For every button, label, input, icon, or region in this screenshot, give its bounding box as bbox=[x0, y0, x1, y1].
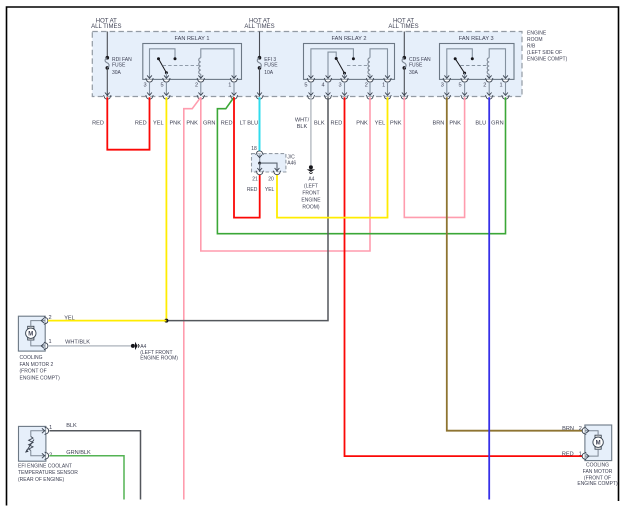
actuator dashed link bbox=[163, 64, 199, 66]
svg-text:BLK: BLK bbox=[297, 124, 308, 130]
motor M symbol bbox=[28, 326, 34, 328]
svg-text:(REAR OF ENGINE): (REAR OF ENGINE) bbox=[18, 477, 64, 483]
pin stubs down to R/B edge bbox=[310, 83, 312, 95]
relay FAN RELAY 2 bbox=[304, 36, 395, 99]
pin connectors at relay box bottom bbox=[146, 75, 154, 82]
svg-text:2: 2 bbox=[579, 426, 582, 432]
svg-text:WHT/BLK: WHT/BLK bbox=[65, 339, 90, 345]
svg-text:RED: RED bbox=[92, 120, 104, 126]
switch blade (open) pin 5 bbox=[157, 57, 160, 60]
svg-text:30A: 30A bbox=[409, 70, 419, 76]
EFI engine coolant temperature sensor bbox=[18, 425, 78, 483]
engine room R/B box (dashed) bbox=[92, 32, 522, 97]
wire YEL: relay 1 pin 5 down to junction bbox=[153, 97, 166, 320]
svg-text:YEL: YEL bbox=[153, 120, 164, 126]
fuse EFI 3 FUSE 10A bbox=[256, 32, 279, 100]
svg-text:COOLING: COOLING bbox=[586, 462, 609, 468]
pin 2 connector bbox=[42, 452, 49, 460]
svg-text:PNK: PNK bbox=[390, 120, 402, 126]
pin 2 connector bbox=[582, 427, 589, 435]
thermistor symbol bbox=[29, 437, 33, 451]
svg-text:10A: 10A bbox=[264, 70, 274, 76]
wire RED: relay 2 pin 3 to cooling fan motor pin 1 bbox=[330, 97, 583, 457]
svg-text:YEL: YEL bbox=[265, 187, 275, 193]
svg-text:M: M bbox=[596, 441, 601, 447]
svg-text:FAN MOTOR: FAN MOTOR bbox=[583, 469, 613, 475]
svg-text:A46: A46 bbox=[287, 160, 296, 166]
svg-text:5: 5 bbox=[160, 83, 163, 89]
pin connectors at relay box bottom bbox=[443, 75, 451, 82]
svg-text:A4: A4 bbox=[308, 176, 314, 182]
svg-text:PNK: PNK bbox=[356, 120, 368, 126]
internal junction dot bbox=[258, 162, 261, 165]
svg-text:2: 2 bbox=[483, 83, 486, 89]
svg-text:FAN RELAY 3: FAN RELAY 3 bbox=[459, 36, 494, 42]
cooling fan motor (right) bbox=[577, 425, 618, 487]
wire LT BLU: EFI 3 fuse to J/C A46 pin 18 bbox=[240, 97, 260, 151]
node: HOT AT ALL TIMES (left) bbox=[91, 19, 121, 30]
pin connectors at relay box bottom bbox=[307, 75, 315, 82]
svg-text:5: 5 bbox=[459, 83, 462, 89]
svg-text:RED: RED bbox=[330, 120, 342, 126]
pin 18 connector (top) bbox=[256, 151, 264, 158]
svg-text:1: 1 bbox=[579, 451, 582, 457]
wire YEL: relay 2 pin 1 to J/C A46 pin 20 bbox=[265, 97, 388, 217]
svg-text:FAN RELAY 2: FAN RELAY 2 bbox=[332, 36, 367, 42]
wire PNK: CDS FAN fuse to relay 3 pin 5 bbox=[390, 97, 465, 217]
svg-text:1: 1 bbox=[228, 83, 231, 89]
wire RED: relay 1 pin 1 to J/C A46 pin 21 bbox=[221, 97, 260, 217]
svg-text:M: M bbox=[28, 332, 33, 338]
svg-text:RED: RED bbox=[562, 451, 574, 457]
wire PNK: relay 1 pin 2 to relay 2 pin 2 (coils) bbox=[186, 97, 370, 251]
svg-text:21: 21 bbox=[252, 176, 258, 182]
svg-text:RED: RED bbox=[247, 187, 258, 193]
svg-text:(LEFT: (LEFT bbox=[304, 184, 318, 190]
wire GRN/BLK: sensor pin 2 to page bottom bbox=[49, 450, 124, 500]
svg-text:BLK: BLK bbox=[66, 423, 77, 429]
motor M symbol bbox=[595, 435, 601, 437]
svg-text:ALL TIMES: ALL TIMES bbox=[91, 24, 121, 30]
svg-text:3: 3 bbox=[338, 83, 341, 89]
wire WHT/BLK: cooling fan motor 2 pin 1 to ground A4 bbox=[48, 339, 131, 346]
svg-text:BRN: BRN bbox=[432, 120, 444, 126]
ground A4 (LEFT FRONT ENGINE ROOM) mid bbox=[301, 165, 321, 210]
svg-text:2: 2 bbox=[365, 83, 368, 89]
svg-text:LT BLU: LT BLU bbox=[240, 120, 258, 126]
ground A4 (LEFT FRONT ENGINE ROOM) left bbox=[131, 342, 178, 362]
pin numbers 3 5 2 1 bbox=[441, 83, 503, 89]
pin 1 connector bbox=[41, 342, 48, 350]
svg-text:2: 2 bbox=[195, 83, 198, 89]
svg-text:ROOM): ROOM) bbox=[302, 204, 320, 210]
svg-text:3: 3 bbox=[441, 83, 444, 89]
junction connector J/C A46 bbox=[251, 146, 296, 182]
svg-text:BLK: BLK bbox=[314, 120, 325, 126]
svg-text:FUSE: FUSE bbox=[112, 62, 126, 68]
wire GRN: relay 1 pin 1 to relay 3 pin 1 bbox=[203, 97, 506, 234]
wire BLK: relay 2 pin 4 to junction with YEL bbox=[166, 97, 328, 320]
svg-text:30A: 30A bbox=[112, 70, 122, 76]
svg-text:1: 1 bbox=[49, 425, 52, 431]
wire PNK: relay 1 pin 2 jog down to page bottom bbox=[169, 97, 200, 499]
svg-text:TEMPERATURE SENSOR: TEMPERATURE SENSOR bbox=[18, 470, 78, 476]
svg-text:18: 18 bbox=[251, 146, 257, 152]
svg-text:ENGINE COMPT): ENGINE COMPT) bbox=[527, 56, 568, 62]
svg-text:FAN MOTOR 2: FAN MOTOR 2 bbox=[20, 362, 54, 368]
actuator dashed link bbox=[347, 65, 368, 67]
wire BRN: relay 3 pin 3 to cooling fan motor pin 2 bbox=[432, 97, 583, 432]
svg-text:GRN: GRN bbox=[203, 120, 215, 126]
svg-text:5: 5 bbox=[304, 83, 307, 89]
svg-text:ENGINE ROOM): ENGINE ROOM) bbox=[140, 355, 178, 361]
wire BLK: sensor pin 1 to page bottom bbox=[49, 423, 140, 500]
svg-text:FUSE: FUSE bbox=[409, 62, 423, 68]
svg-text:WHT/: WHT/ bbox=[295, 118, 310, 124]
fuse CDS FAN FUSE 30A bbox=[401, 32, 432, 100]
svg-text:ALL TIMES: ALL TIMES bbox=[244, 24, 274, 30]
svg-text:YEL: YEL bbox=[64, 315, 75, 321]
wire RED: RDI FAN fuse to relay 1 pin 3 bbox=[92, 97, 149, 150]
pin 1 connector bbox=[582, 452, 589, 460]
svg-text:EFI ENGINE COOLANT: EFI ENGINE COOLANT bbox=[18, 463, 72, 469]
svg-text:FUSE: FUSE bbox=[264, 62, 278, 68]
switch blade (open) pin 5 bbox=[454, 57, 457, 60]
svg-text:FAN RELAY 1: FAN RELAY 1 bbox=[175, 36, 210, 42]
svg-text:PNK: PNK bbox=[449, 120, 461, 126]
pin 20 connector (bottom) bbox=[273, 168, 281, 175]
svg-text:(LEFT SIDE OF: (LEFT SIDE OF bbox=[527, 50, 562, 56]
cooling fan motor 2 (left) bbox=[18, 315, 60, 381]
svg-text:BRN: BRN bbox=[562, 426, 574, 432]
svg-text:GRN/BLK: GRN/BLK bbox=[66, 450, 91, 456]
svg-text:ALL TIMES: ALL TIMES bbox=[388, 24, 418, 30]
pin numbers 3 5 2 1 bbox=[143, 83, 231, 89]
svg-text:1: 1 bbox=[382, 83, 385, 89]
svg-text:RED: RED bbox=[135, 120, 147, 126]
svg-text:BLU: BLU bbox=[475, 120, 486, 126]
svg-text:FRONT: FRONT bbox=[302, 191, 319, 197]
svg-text:20: 20 bbox=[268, 176, 274, 182]
pin 5 bracket to NO contact bbox=[311, 49, 354, 80]
actuator dashed link bbox=[461, 65, 488, 67]
svg-text:ENGINE COMPT): ENGINE COMPT) bbox=[577, 481, 618, 487]
coil between pin 2 and pin 1 bbox=[487, 58, 489, 74]
fuse RDI FAN FUSE 30A bbox=[104, 32, 133, 100]
pin 3 bracket to fixed contact bbox=[150, 49, 176, 80]
svg-text:COOLING: COOLING bbox=[20, 355, 43, 361]
svg-text:(FRONT OF: (FRONT OF bbox=[20, 369, 47, 375]
wire YEL: cooling fan motor 2 pin 2 to junction bbox=[48, 315, 166, 321]
pin 1 connector bbox=[42, 427, 49, 435]
wire WHT/BLK: relay 2 pin 5 to ground A4 bbox=[295, 97, 311, 165]
relay FAN RELAY 3 bbox=[440, 36, 515, 99]
pin 3 bracket to fixed contact bbox=[447, 49, 473, 80]
switch blade (closed to pin 4) common pin 3 bbox=[337, 59, 345, 73]
svg-text:YEL: YEL bbox=[375, 120, 386, 126]
pin 21 connector (bottom) bbox=[256, 168, 264, 175]
svg-text:ENGINE: ENGINE bbox=[527, 30, 547, 36]
connectors at R/B dashed edge bbox=[443, 93, 451, 100]
node: HOT AT ALL TIMES (middle) bbox=[244, 19, 274, 30]
svg-text:1: 1 bbox=[48, 339, 51, 345]
svg-text:PNK: PNK bbox=[186, 120, 198, 126]
svg-text:R/B: R/B bbox=[527, 43, 536, 49]
coil between pin 2 and pin 1 bbox=[368, 58, 370, 74]
pin stubs down to R/B edge bbox=[149, 83, 151, 95]
svg-text:RED: RED bbox=[221, 120, 233, 126]
svg-text:GRN: GRN bbox=[491, 120, 503, 126]
wire BLU: relay 3 pin 2 down to page bottom bbox=[475, 97, 489, 499]
label: ENGINE ROOM R/B (LEFT SIDE OF ENGINE COMPT) bbox=[527, 30, 568, 62]
connectors at R/B dashed edge bbox=[307, 93, 315, 100]
svg-text:PNK: PNK bbox=[169, 120, 181, 126]
pin stubs down to R/B edge bbox=[446, 83, 448, 95]
svg-text:4: 4 bbox=[321, 83, 324, 89]
pin numbers 5 4 3 2 1 bbox=[304, 83, 385, 89]
connectors at R/B dashed edge bbox=[146, 93, 154, 100]
coil between pin 2 and pin 1 bbox=[199, 58, 201, 74]
node: HOT AT ALL TIMES (right) bbox=[388, 19, 418, 30]
svg-text:ENGINE: ENGINE bbox=[301, 198, 321, 204]
pin 2 connector bbox=[41, 317, 48, 325]
svg-text:3: 3 bbox=[143, 83, 146, 89]
junction node (YEL/BLK) bbox=[164, 319, 168, 323]
relay FAN RELAY 1 bbox=[143, 36, 242, 99]
svg-text:ROOM: ROOM bbox=[527, 37, 543, 43]
svg-text:1: 1 bbox=[499, 83, 502, 89]
svg-text:ENGINE COMPT): ENGINE COMPT) bbox=[20, 375, 61, 381]
pin 4 bracket to NC contact bbox=[328, 52, 336, 79]
